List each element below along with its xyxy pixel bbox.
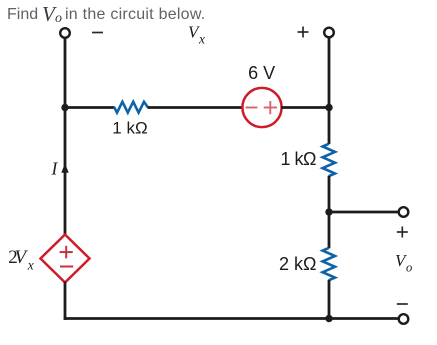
svg-text:x: x xyxy=(198,32,205,47)
terminal output + xyxy=(399,207,409,217)
wire: R3 to node D xyxy=(328,280,331,319)
plus of dependent source xyxy=(60,246,73,259)
wire: R2 to node C xyxy=(328,176,331,212)
terminal top-left xyxy=(60,28,70,38)
resistor R1 1 kOhm (horizontal) xyxy=(114,102,148,113)
svg-text:o: o xyxy=(55,11,62,26)
svg-text:V: V xyxy=(15,247,29,268)
svg-text:o: o xyxy=(406,261,412,275)
terminal top-right xyxy=(324,28,334,38)
minus of dependent source xyxy=(60,266,73,268)
wire: R1 to source V1 xyxy=(147,106,243,109)
wire: bottom rail xyxy=(64,317,399,320)
svg-text:1 kΩ: 1 kΩ xyxy=(112,118,147,137)
svg-text:I: I xyxy=(51,159,59,179)
wire: node C down to resistor R3 xyxy=(328,212,331,248)
wire: node A to resistor R1 xyxy=(65,106,115,109)
minus sign of Vx xyxy=(92,32,103,34)
wire: dependent source down to bottom-left corner xyxy=(64,282,67,320)
label Vo xyxy=(395,251,412,275)
dependent source 2Vx (diamond) xyxy=(41,235,90,283)
wire: node C to output + terminal xyxy=(329,211,399,214)
svg-text:x: x xyxy=(27,258,34,273)
current arrow I xyxy=(61,163,68,173)
svg-text:2 kΩ: 2 kΩ xyxy=(279,254,316,274)
resistor R2 1 kOhm (vertical) xyxy=(323,144,335,176)
wire: top-right terminal down to node B xyxy=(328,37,331,107)
node C (junction dot) xyxy=(325,208,332,215)
label 2Vx xyxy=(8,247,34,273)
wire: top-left terminal down to node A xyxy=(64,38,67,108)
label Vx xyxy=(188,23,205,47)
svg-text:Find: Find xyxy=(7,6,38,23)
minus sign of Vo xyxy=(397,303,408,305)
wire: node A down to dependent source xyxy=(64,108,67,236)
svg-text:1 kΩ: 1 kΩ xyxy=(281,149,317,169)
title: Find Vo in the circuit below. xyxy=(7,2,205,26)
plus of V1 xyxy=(264,101,277,114)
plus sign of Vx xyxy=(298,27,309,38)
svg-text:in the circuit below.: in the circuit below. xyxy=(65,6,205,23)
plus sign of Vo xyxy=(397,227,408,238)
node A (junction dot) xyxy=(61,104,68,111)
voltage source V1 6V xyxy=(242,88,281,127)
resistor R3 2 kOhm (vertical) xyxy=(323,248,335,280)
node B (junction dot) xyxy=(325,104,332,111)
minus of V1 xyxy=(246,107,258,109)
terminal output - xyxy=(399,314,409,324)
svg-text:6 V: 6 V xyxy=(248,63,275,83)
wire: node B down to resistor R2 xyxy=(328,108,331,145)
node D (junction dot) xyxy=(325,315,332,322)
wire: V1 to node B xyxy=(281,106,329,109)
